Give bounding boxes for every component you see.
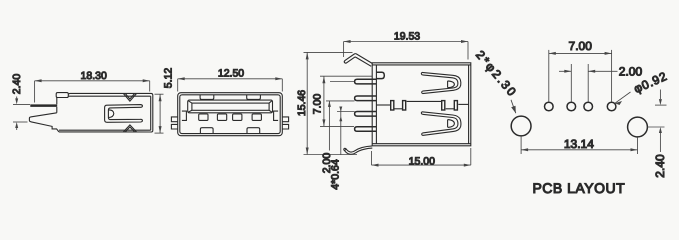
- svg-text:2.40: 2.40: [653, 154, 667, 178]
- svg-text:2*φ2.30: 2*φ2.30: [473, 48, 520, 100]
- svg-text:18.30: 18.30: [81, 70, 107, 82]
- svg-text:2.00: 2.00: [619, 64, 643, 78]
- svg-text:19.53: 19.53: [394, 31, 420, 43]
- svg-text:15.00: 15.00: [409, 155, 435, 167]
- svg-text:15.46: 15.46: [296, 90, 308, 116]
- svg-text:PCB LAYOUT: PCB LAYOUT: [532, 180, 625, 196]
- svg-text:7.00: 7.00: [569, 39, 593, 53]
- svg-text:2.40: 2.40: [11, 74, 23, 95]
- svg-text:5.12: 5.12: [163, 68, 175, 89]
- svg-text:12.50: 12.50: [218, 68, 244, 80]
- svg-text:4*0.64: 4*0.64: [330, 159, 342, 190]
- svg-text:13.14: 13.14: [564, 137, 594, 151]
- svg-text:7.00: 7.00: [312, 94, 324, 115]
